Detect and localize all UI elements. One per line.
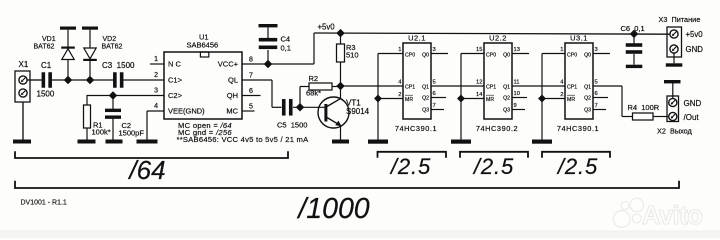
svg-text:6: 6 <box>249 88 253 95</box>
node C2 top <box>109 91 117 99</box>
svg-text:**SAB6456: VCC 4v5 to 5v5 / 21: **SAB6456: VCC 4v5 to 5v5 / 21 mA <box>177 135 310 144</box>
svg-text:X3 Питание: X3 Питание <box>659 15 701 24</box>
svg-text:Q1: Q1 <box>422 85 429 91</box>
ground under U1 VEE <box>137 140 158 144</box>
svg-text:1500pF: 1500pF <box>119 129 145 138</box>
svg-text:9: 9 <box>514 103 517 109</box>
wire collector <box>340 86 342 99</box>
wire X1 ground drop <box>22 102 24 140</box>
svg-text:Q2: Q2 <box>422 96 429 102</box>
node collector junction <box>336 82 344 90</box>
IC U2.1 74HC390.1 divider <box>374 34 448 140</box>
svg-text:CP0: CP0 <box>567 53 577 59</box>
U1 notes text <box>177 121 310 144</box>
svg-text:+5v0: +5v0 <box>686 30 704 39</box>
wire collector to U2.1 CP1 <box>341 85 404 87</box>
svg-text:X2 Выход: X2 Выход <box>657 127 693 136</box>
op-amp U1 SAB6456 (prescaler IC) <box>164 33 242 120</box>
svg-text:Avito: Avito <box>642 202 702 230</box>
diode VD2 BAT62 <box>82 27 122 81</box>
svg-text:3: 3 <box>595 47 598 53</box>
wire C1 to C3 (node with VD1 VD2) <box>52 79 113 81</box>
svg-text:CP1: CP1 <box>567 85 577 91</box>
svg-text:6: 6 <box>433 91 436 97</box>
label /2.5 third <box>556 154 598 179</box>
capacitor C1 1500 <box>37 61 55 99</box>
pin 6 QH stub <box>242 88 261 96</box>
capacitor C2 1500pF <box>105 96 144 140</box>
node C5 base junction <box>296 103 304 111</box>
resistor R1 100k <box>84 105 111 137</box>
svg-text:Q0: Q0 <box>422 53 429 59</box>
svg-text:MR: MR <box>486 97 494 103</box>
wire U2.1 Q1 to U2.2 CP1 <box>431 85 484 87</box>
svg-text:15: 15 <box>476 47 482 53</box>
pin 8 VCC wire <box>242 57 314 65</box>
wire U1 pin3 to bias node <box>87 95 164 97</box>
IC U2.2 74HC390.2 divider <box>457 34 529 140</box>
pin 4 VEE wire <box>147 103 164 140</box>
svg-text:VCC+: VCC+ <box>218 60 239 69</box>
svg-text:VD1: VD1 <box>42 36 56 43</box>
svg-text:/2.5: /2.5 <box>556 154 598 179</box>
svg-text:7: 7 <box>249 73 253 80</box>
svg-text:VD2: VD2 <box>103 36 117 43</box>
diode VD1 BAT62 <box>34 27 77 81</box>
svg-text:Q2: Q2 <box>584 96 591 102</box>
svg-text:5: 5 <box>433 80 436 86</box>
resistor R3 510 <box>337 33 359 86</box>
pin 2 label <box>154 72 158 79</box>
resistor R2 68k <box>300 74 341 107</box>
svg-text:GND: GND <box>684 99 702 108</box>
ground under X3 <box>666 53 683 66</box>
ground under U3.1 feed <box>532 140 552 144</box>
svg-text:0,1: 0,1 <box>281 44 291 53</box>
svg-text:/2.5: /2.5 <box>472 154 514 179</box>
svg-text:Q3: Q3 <box>422 108 429 114</box>
svg-text:4: 4 <box>154 103 158 110</box>
svg-text:R4 100R: R4 100R <box>628 103 660 112</box>
svg-text:/2.5: /2.5 <box>389 154 431 179</box>
svg-text:U2.2: U2.2 <box>489 34 507 43</box>
node R3 top <box>336 29 344 37</box>
svg-text:C5 1500: C5 1500 <box>277 121 307 130</box>
svg-text:SAB6456: SAB6456 <box>187 41 219 50</box>
svg-text:S9014: S9014 <box>346 107 370 116</box>
svg-text:C4: C4 <box>281 35 291 44</box>
svg-text:1: 1 <box>398 47 401 53</box>
svg-text:N C: N C <box>168 60 182 69</box>
svg-text:7: 7 <box>595 103 598 109</box>
ground under VT1 <box>332 140 349 144</box>
pin 3 label <box>154 88 158 95</box>
svg-text:74HC390.1: 74HC390.1 <box>395 124 437 133</box>
svg-text:U2.1: U2.1 <box>408 34 426 43</box>
svg-text:3: 3 <box>154 88 158 95</box>
svg-text:12: 12 <box>476 80 482 86</box>
svg-text:VEE(GND): VEE(GND) <box>168 107 205 116</box>
svg-text:11: 11 <box>514 80 520 86</box>
bracket /1000 <box>15 181 679 188</box>
node at VD1 <box>64 76 72 84</box>
ground under C2 <box>106 140 123 144</box>
label DV1001 - R1.1 <box>21 200 67 207</box>
svg-text:5: 5 <box>595 80 598 86</box>
capacitor C3 1500 <box>102 61 135 88</box>
connector X1 (input) <box>15 60 30 102</box>
svg-text:1: 1 <box>154 56 158 63</box>
svg-text:7: 7 <box>433 103 436 109</box>
bracket /2.5 first <box>378 152 447 158</box>
ground under X1 <box>13 140 31 144</box>
capacitor C5 1500 <box>272 99 325 129</box>
svg-text:2: 2 <box>560 92 563 98</box>
node C4 <box>264 60 272 68</box>
pin 1 NC stub <box>150 56 164 64</box>
bracket /2.5 second <box>460 152 528 158</box>
label /2.5 first <box>389 154 431 179</box>
svg-text:C2>: C2> <box>168 91 183 100</box>
watermark avito <box>613 198 702 230</box>
resistor R4 100R <box>628 103 669 120</box>
svg-text:Q1: Q1 <box>503 85 510 91</box>
svg-text:X1: X1 <box>19 60 29 69</box>
pin 7 QL wire <box>242 73 272 108</box>
svg-text:68k*: 68k* <box>306 89 321 98</box>
svg-text:/Out: /Out <box>684 113 700 122</box>
svg-text:510: 510 <box>346 51 359 60</box>
ground above X2 <box>664 80 681 98</box>
capacitor C4 0.1 <box>259 24 291 64</box>
svg-text:3: 3 <box>433 47 436 53</box>
svg-text:BAT62: BAT62 <box>34 44 55 51</box>
svg-text:/64: /64 <box>127 155 165 185</box>
bracket /64 <box>15 151 288 158</box>
wire X1 to C1 <box>27 79 41 81</box>
connector X2 (output) <box>657 96 702 136</box>
svg-text:+5v0: +5v0 <box>318 23 336 32</box>
bracket /2.5 third <box>542 152 610 158</box>
svg-text:CP0: CP0 <box>486 53 496 59</box>
svg-text:13: 13 <box>514 47 520 53</box>
capacitor C6 0.1 <box>621 24 645 68</box>
wire emitter to ground <box>340 126 342 140</box>
svg-text:QL: QL <box>228 76 238 85</box>
svg-text:MC: MC <box>226 107 238 116</box>
transistor VT1 S9014 <box>318 97 370 128</box>
svg-text:1500: 1500 <box>37 90 55 99</box>
svg-text:Q3: Q3 <box>584 108 591 114</box>
svg-text:2: 2 <box>398 92 401 98</box>
svg-text:/1000: /1000 <box>296 193 369 225</box>
wire R1 to ground <box>86 128 88 140</box>
svg-text:DV1001 - R1.1: DV1001 - R1.1 <box>21 200 67 207</box>
wire U3.1 Q1 to R4 <box>593 86 633 117</box>
svg-text:10: 10 <box>514 91 520 97</box>
label /64 <box>127 155 165 185</box>
svg-text:BAT62: BAT62 <box>102 44 123 51</box>
node at VD2 <box>86 76 94 84</box>
svg-text:6: 6 <box>595 91 598 97</box>
wire down to R1 <box>86 95 88 105</box>
svg-text:Q0: Q0 <box>584 53 591 59</box>
svg-text:QH: QH <box>227 91 238 100</box>
svg-text:C1: C1 <box>41 61 52 70</box>
svg-text:Q1: Q1 <box>584 85 591 91</box>
svg-text:Q3: Q3 <box>503 108 510 114</box>
wire U2.2 Q1 to U3.1 CP1 <box>512 85 565 87</box>
svg-text:8: 8 <box>249 57 253 64</box>
svg-text:MR: MR <box>567 97 575 103</box>
svg-text:CP0: CP0 <box>405 53 415 59</box>
svg-text:74HC390.2: 74HC390.2 <box>476 124 518 133</box>
label /1000 <box>296 193 369 225</box>
svg-text:R2: R2 <box>309 74 319 83</box>
svg-text:MR: MR <box>405 97 413 103</box>
svg-text:74HC390.1: 74HC390.1 <box>557 124 599 133</box>
IC U3.1 74HC390.1 divider <box>538 34 610 140</box>
ground under U2.1 feed <box>368 140 388 144</box>
svg-text:C1>: C1> <box>168 76 183 85</box>
svg-text:14: 14 <box>476 92 483 98</box>
svg-text:2: 2 <box>154 72 158 79</box>
svg-text:GND: GND <box>686 45 704 54</box>
svg-text:U3.1: U3.1 <box>570 34 588 43</box>
svg-text:C3 1500: C3 1500 <box>102 61 135 70</box>
svg-text:CP1: CP1 <box>405 85 415 91</box>
label /2.5 second <box>472 154 514 179</box>
connector X3 (power) <box>659 15 704 57</box>
svg-text:100k*: 100k* <box>92 128 111 137</box>
wire C3 to U1 pin2 <box>124 79 165 81</box>
svg-text:Q2: Q2 <box>503 96 510 102</box>
pin 5 MC stub <box>242 104 255 112</box>
svg-text:1: 1 <box>560 47 563 53</box>
svg-text:5: 5 <box>249 104 253 111</box>
svg-text:CP1: CP1 <box>486 85 496 91</box>
ground under U2.2 feed <box>451 140 471 144</box>
svg-text:Q0: Q0 <box>503 53 510 59</box>
ground under R1 <box>78 140 96 144</box>
+5v0 rail <box>314 23 670 65</box>
